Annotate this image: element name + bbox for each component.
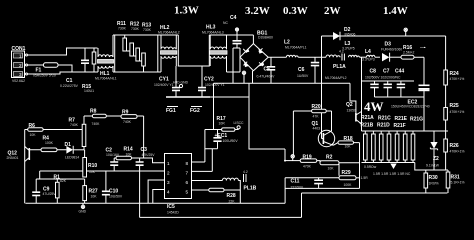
capacitor C44 bbox=[365, 69, 405, 98]
svg-text:4W: 4W bbox=[364, 99, 384, 114]
svg-text:10U/50V: 10U/50V bbox=[109, 195, 123, 199]
winding PL1B bbox=[222, 170, 256, 203]
transistor Q12 bbox=[7, 146, 30, 162]
svg-text:LED9814: LED9814 bbox=[65, 156, 79, 160]
svg-text:ML7064A/HL3: ML7064A/HL3 bbox=[202, 31, 224, 35]
svg-text:HJD GND: HJD GND bbox=[173, 81, 189, 85]
svg-text:1.4W: 1.4W bbox=[383, 5, 408, 17]
wire pin5 bbox=[192, 189, 209, 191]
svg-text:IC5: IC5 bbox=[167, 204, 175, 210]
svg-text:V02.6&2: V02.6&2 bbox=[12, 79, 25, 83]
bridge BG1 bbox=[240, 31, 273, 71]
resistor R1 bbox=[54, 175, 67, 204]
svg-text:470K: 470K bbox=[303, 165, 312, 169]
inductor L4 bbox=[362, 49, 380, 62]
svg-text:L4: L4 bbox=[365, 49, 371, 55]
resistor R16 bbox=[401, 45, 426, 85]
resistor ladder R11 R12 R13 bbox=[115, 21, 158, 72]
svg-text:D3SBA60: D3SBA60 bbox=[258, 36, 273, 40]
svg-text:CY2: CY2 bbox=[204, 77, 214, 83]
resistor R10 bbox=[83, 150, 98, 177]
svg-text:730K: 730K bbox=[143, 28, 152, 32]
aux wire corner bbox=[284, 149, 286, 161]
rail sense gnd bbox=[285, 187, 359, 189]
svg-text:R21F: R21F bbox=[394, 123, 406, 129]
wire mid-left node bbox=[36, 178, 84, 180]
svg-text:740K: 740K bbox=[92, 122, 101, 126]
svg-text:3.3*UP5: 3.3*UP5 bbox=[342, 47, 355, 51]
resistor R29 bbox=[339, 163, 360, 187]
svg-text:R29: R29 bbox=[342, 170, 351, 176]
svg-text:10K: 10K bbox=[91, 195, 98, 199]
svg-text:100U/50V: 100U/50V bbox=[223, 139, 239, 143]
resistor R21A bank bbox=[361, 115, 424, 180]
connector CON1 bbox=[12, 46, 28, 83]
ground FG1 bbox=[166, 107, 178, 115]
svg-text:5: 5 bbox=[186, 190, 189, 195]
capacitor C1 bbox=[60, 48, 89, 88]
svg-text:3.2W: 3.2W bbox=[245, 5, 270, 17]
svg-text:CY1: CY1 bbox=[159, 77, 169, 83]
svg-text:ML7064A/PL1: ML7064A/PL1 bbox=[285, 46, 307, 50]
inductor L2 bbox=[284, 40, 326, 58]
svg-text:1.3W: 1.3W bbox=[174, 5, 199, 17]
svg-text:0.22U/275V: 0.22U/275V bbox=[60, 84, 79, 88]
top rail bbox=[113, 34, 253, 36]
output column R24 bbox=[444, 36, 465, 108]
wire HL3 to bridge bbox=[240, 35, 253, 72]
svg-text:14542D: 14542D bbox=[167, 211, 179, 215]
svg-text:Q2: Q2 bbox=[346, 102, 353, 108]
wire pin6 bbox=[192, 180, 223, 182]
wire pin7 bbox=[192, 170, 213, 172]
svg-text:10K: 10K bbox=[328, 167, 335, 171]
wire D2 branch bbox=[322, 36, 446, 139]
wire pin8 bbox=[192, 161, 205, 163]
test point LISCC bbox=[234, 121, 245, 129]
svg-text:FG1: FG1 bbox=[166, 108, 176, 114]
svg-text:7: 7 bbox=[186, 171, 189, 176]
svg-text:R10: R10 bbox=[88, 163, 97, 169]
resistor R28 bbox=[209, 188, 241, 203]
earth bar bbox=[166, 96, 210, 98]
svg-text:82K: 82K bbox=[60, 179, 67, 183]
resistor bank rail bbox=[362, 131, 449, 163]
svg-text:4.2: 4.2 bbox=[243, 170, 248, 174]
capacitor C7 bbox=[383, 69, 392, 98]
svg-text:C44: C44 bbox=[395, 69, 404, 75]
svg-text:150U/450V/CD82E/22*40: 150U/450V/CD82E/22*40 bbox=[391, 105, 430, 109]
svg-text:100K: 100K bbox=[45, 141, 54, 145]
svg-text:10R: 10R bbox=[219, 122, 226, 126]
bottom long rail bbox=[140, 171, 302, 217]
minus rail bbox=[214, 82, 351, 84]
diode D1 bbox=[65, 142, 85, 160]
svg-text:R28: R28 bbox=[227, 193, 236, 199]
capacitor C5 bbox=[257, 57, 276, 83]
svg-text:102/400V Y1: 102/400V Y1 bbox=[154, 83, 174, 87]
svg-text:PL1A: PL1A bbox=[333, 64, 346, 70]
resistor R9 bbox=[121, 110, 144, 159]
bottom AC rail bbox=[113, 71, 240, 73]
choke HL3 bbox=[202, 25, 227, 73]
svg-text:LISCC: LISCC bbox=[234, 121, 245, 125]
svg-text:1.5R: 1.5R bbox=[361, 176, 369, 180]
IC U5 bbox=[165, 154, 192, 215]
capacitor C4 bbox=[223, 15, 242, 83]
svg-text:C11: C11 bbox=[291, 179, 300, 185]
wire pin4 bbox=[153, 190, 165, 204]
fuse F1 bbox=[28, 63, 73, 78]
arrow down bbox=[390, 164, 396, 170]
svg-text:2: 2 bbox=[167, 171, 170, 176]
Y-capacitor CY2 bbox=[198, 66, 225, 97]
svg-text:2: 2 bbox=[19, 63, 22, 68]
diode D3 bbox=[381, 42, 402, 62]
transistor Q1 bbox=[312, 121, 335, 147]
wire pin1 bbox=[140, 158, 165, 163]
svg-text:R21A: R21A bbox=[361, 115, 374, 121]
svg-text:1R0/%: 1R0/% bbox=[429, 182, 439, 186]
wire aux drop bbox=[249, 83, 285, 149]
diode D2 bbox=[333, 27, 356, 40]
Y-capacitor CY1 bbox=[154, 66, 180, 97]
svg-text:1: 1 bbox=[167, 161, 170, 166]
sense vertical bbox=[359, 143, 361, 189]
svg-text:L2: L2 bbox=[284, 40, 290, 46]
transistor Q2 bbox=[346, 83, 362, 124]
svg-text:R30: R30 bbox=[429, 175, 438, 181]
resistor R19 bbox=[285, 155, 320, 169]
svg-text:IN5406: IN5406 bbox=[345, 32, 356, 36]
svg-text:9.1V/1W: 9.1V/1W bbox=[426, 164, 440, 168]
capacitor C3 bbox=[136, 147, 156, 171]
capacitor C8 bbox=[370, 69, 379, 98]
svg-text:0.47U/400V: 0.47U/400V bbox=[257, 75, 276, 79]
capacitor C6 bbox=[297, 57, 319, 83]
svg-text:1.5R 1.5R 1.5R 1.5R NC: 1.5R 1.5R 1.5R 1.5R NC bbox=[373, 172, 411, 176]
capacitor C2 bbox=[106, 148, 120, 172]
resistor R7 bbox=[69, 116, 86, 150]
svg-text:47U/25V: 47U/25V bbox=[43, 192, 57, 196]
svg-text:10K: 10K bbox=[89, 170, 96, 174]
svg-text:100K: 100K bbox=[344, 183, 353, 187]
dip wire bbox=[178, 35, 209, 66]
wire pin3 bbox=[148, 180, 164, 203]
capacitor C9 bbox=[32, 179, 56, 203]
svg-text:740K: 740K bbox=[70, 123, 79, 127]
capacitor EC2 bbox=[391, 85, 430, 131]
wire mid node bbox=[285, 178, 339, 204]
svg-text:3.3*UP3: 3.3*UP3 bbox=[362, 58, 375, 62]
svg-text:R21C: R21C bbox=[378, 116, 391, 122]
wire bridge plus bbox=[268, 56, 286, 58]
svg-text:0.5RΩw: 0.5RΩw bbox=[364, 165, 377, 169]
EC1 bottom wiring bbox=[205, 130, 218, 172]
svg-text:R21G: R21G bbox=[410, 117, 423, 123]
svg-text:R25: R25 bbox=[450, 103, 459, 109]
svg-text:8: 8 bbox=[186, 161, 189, 166]
test point on minus rail bbox=[242, 71, 245, 74]
resistor R17 bbox=[205, 116, 239, 131]
resistor R2 bbox=[320, 155, 360, 171]
svg-text:2W: 2W bbox=[324, 5, 341, 17]
capacitor C10 bbox=[102, 171, 123, 203]
svg-text:R2: R2 bbox=[326, 155, 333, 161]
resistor R30 bbox=[424, 170, 439, 193]
wire bridge minus bbox=[252, 71, 254, 84]
choke HL2 bbox=[158, 25, 180, 72]
svg-text:0.3W: 0.3W bbox=[283, 5, 308, 17]
svg-text:10K: 10K bbox=[345, 145, 352, 149]
svg-text:6: 6 bbox=[186, 180, 189, 185]
wire vcc drop bbox=[213, 83, 215, 129]
svg-text:2N5401: 2N5401 bbox=[7, 156, 19, 160]
svg-text:ML7064A/HL2: ML7064A/HL2 bbox=[158, 31, 180, 35]
resistor R8 bbox=[84, 109, 121, 127]
svg-text:470K+1%: 470K+1% bbox=[450, 77, 465, 81]
resistor R6 bbox=[25, 123, 82, 137]
svg-text:PL1B: PL1B bbox=[244, 186, 257, 192]
svg-text:FG2: FG2 bbox=[190, 108, 200, 114]
svg-text:10K: 10K bbox=[30, 133, 37, 137]
main low rail bbox=[25, 202, 285, 204]
svg-text:1: 1 bbox=[19, 54, 22, 59]
svg-text:13050: 13050 bbox=[347, 109, 357, 113]
svg-text:NC: NC bbox=[223, 21, 228, 25]
svg-text:4403: 4403 bbox=[313, 127, 321, 131]
resistor R31 bbox=[446, 170, 464, 193]
svg-text:470K+1%: 470K+1% bbox=[450, 110, 465, 114]
test point HJD GND bbox=[173, 81, 189, 88]
svg-text:ML7064A/HL1: ML7064A/HL1 bbox=[95, 77, 117, 81]
svg-text:R21E: R21E bbox=[395, 116, 408, 122]
svg-text:3: 3 bbox=[167, 180, 170, 185]
wire pin2 long bbox=[40, 170, 165, 172]
svg-text:C6: C6 bbox=[298, 67, 305, 73]
svg-text:2.5M+2: 2.5M+2 bbox=[403, 51, 415, 55]
wire z2 bottom bbox=[415, 163, 448, 171]
svg-text:4: 4 bbox=[167, 190, 170, 195]
svg-text:R21B: R21B bbox=[361, 123, 374, 129]
ground FG2 bbox=[190, 107, 202, 115]
svg-text:5.1R+1%: 5.1R+1% bbox=[451, 181, 465, 185]
resistor R15 bbox=[82, 48, 96, 93]
svg-text:ML7064A/PL2: ML7064A/PL2 bbox=[325, 76, 347, 80]
left column bbox=[24, 130, 26, 204]
svg-text:R8: R8 bbox=[90, 109, 97, 115]
svg-text:102/500V 102/2000/NC: 102/500V 102/2000/NC bbox=[365, 76, 401, 80]
inductor L3 bbox=[342, 41, 367, 57]
resistor R27 bbox=[83, 179, 98, 203]
svg-text:C4: C4 bbox=[230, 15, 237, 21]
svg-text:47K/25V: 47K/25V bbox=[142, 153, 156, 157]
svg-text:R21D: R21D bbox=[377, 123, 390, 129]
svg-text:FUR460/1060: FUR460/1060 bbox=[381, 48, 402, 52]
transformer winding PL1A bbox=[325, 50, 347, 81]
choke HL1 bbox=[95, 35, 117, 81]
bottom right rail bbox=[302, 192, 448, 194]
capacitor C11 bbox=[291, 178, 324, 190]
svg-text:GND: GND bbox=[79, 210, 87, 214]
resistor R14 bbox=[114, 147, 139, 160]
svg-text:740K: 740K bbox=[123, 120, 132, 124]
wire R20 node bbox=[293, 111, 331, 155]
resistor R26 bbox=[444, 139, 465, 170]
svg-text:730K: 730K bbox=[131, 27, 140, 31]
svg-text:470R+1%: 470R+1% bbox=[450, 150, 465, 154]
cap bank rail bbox=[362, 81, 425, 97]
resistor R4 bbox=[29, 136, 66, 152]
test point TP bbox=[291, 155, 294, 161]
resistor R20 bbox=[293, 104, 331, 119]
test point on D2 wire bbox=[404, 28, 407, 36]
svg-text:R26: R26 bbox=[450, 143, 459, 149]
svg-text:C8: C8 bbox=[370, 69, 377, 75]
resistor R25 bbox=[444, 103, 465, 139]
svg-text:1U/50V: 1U/50V bbox=[297, 74, 309, 78]
svg-text:47K: 47K bbox=[313, 115, 320, 119]
wire pin3 neutral bbox=[28, 72, 99, 74]
node L3-L4 vertical bbox=[361, 57, 363, 131]
svg-text:730K: 730K bbox=[118, 27, 127, 31]
svg-text:C7: C7 bbox=[383, 69, 390, 75]
capacitor EC1 bbox=[213, 130, 238, 149]
wire pin1 to top bbox=[28, 48, 98, 55]
resistor R18 bbox=[333, 136, 359, 149]
svg-text:3: 3 bbox=[19, 72, 22, 77]
svg-text:140U1: 140U1 bbox=[84, 89, 94, 93]
ground GND bbox=[79, 203, 87, 213]
zener Z2 bbox=[426, 131, 440, 170]
wire pin2 drop bbox=[39, 171, 41, 179]
